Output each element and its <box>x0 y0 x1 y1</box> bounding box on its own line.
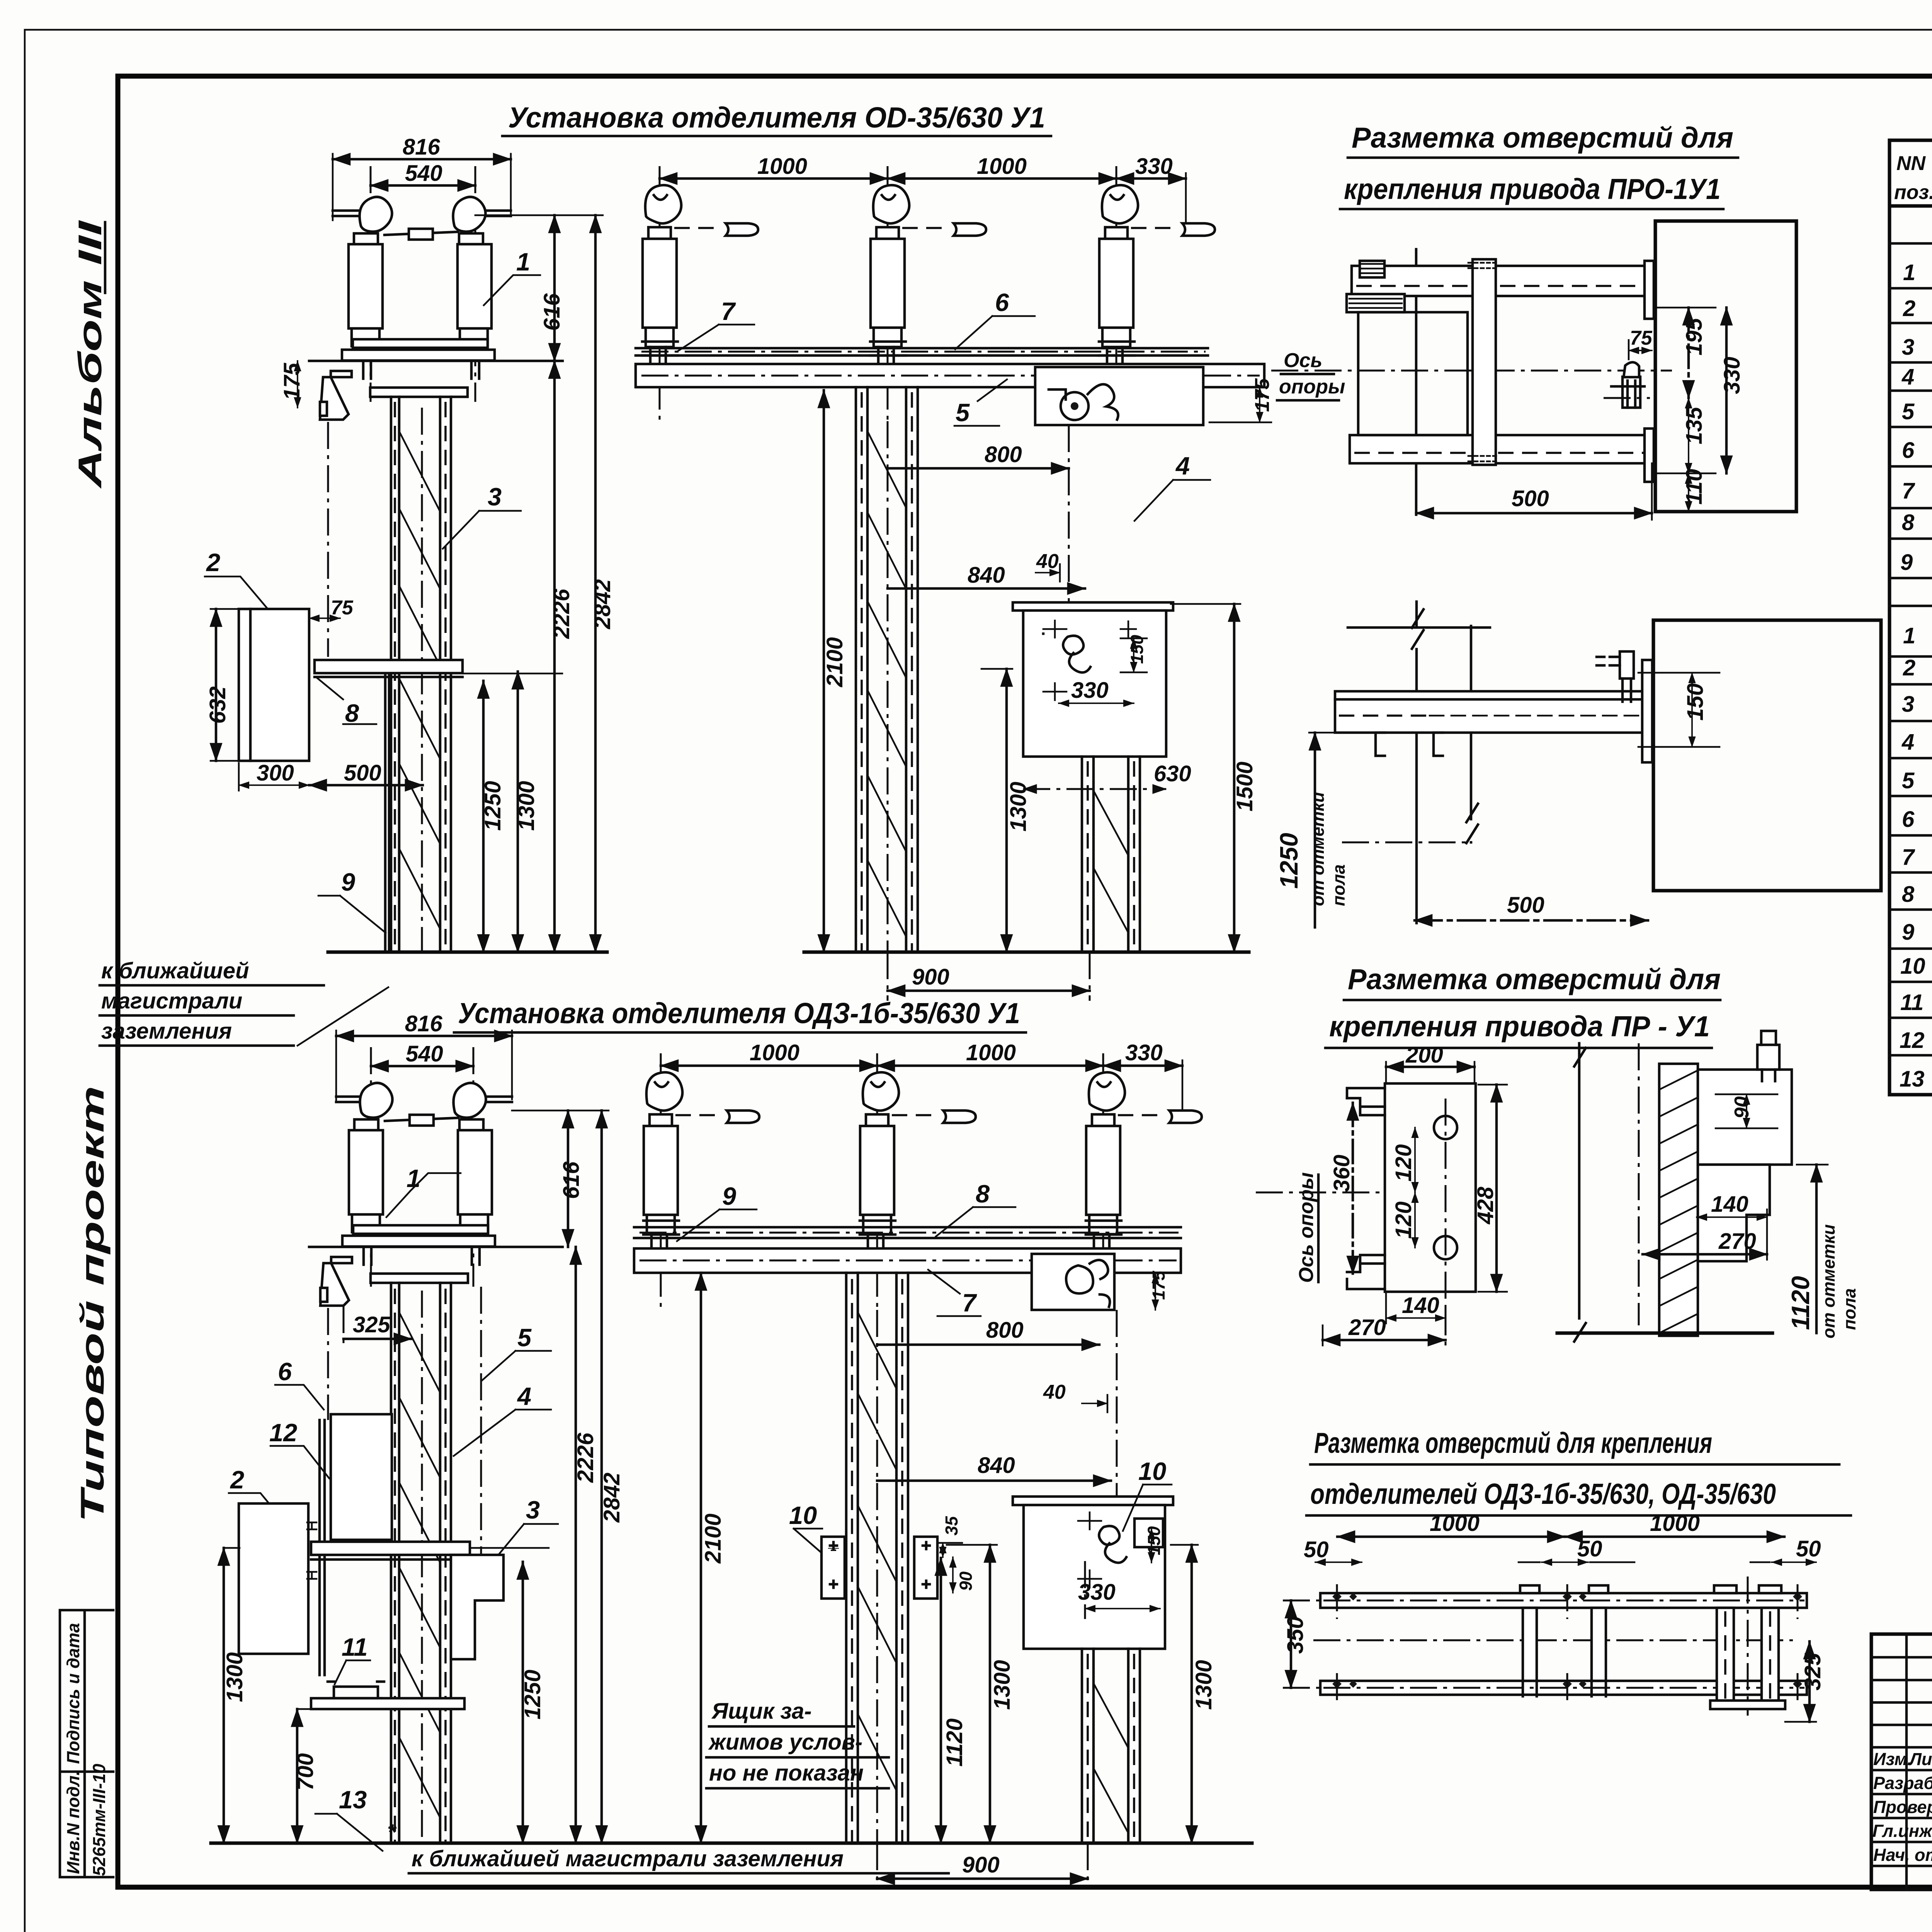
left margin text: Типовой проект <box>74 1086 111 1522</box>
spec s2 row 9 <box>1902 912 1932 952</box>
D2R insulator C <box>1086 1072 1125 1250</box>
svg-text:195: 195 <box>1682 318 1707 355</box>
D2L rod dash-dot (right, тяга 5) <box>480 1287 482 1569</box>
spec s2 row 1 <box>1903 621 1932 648</box>
D2L drive rod dash-dot (left) <box>327 1308 329 1420</box>
svg-text:360: 360 <box>1329 1155 1354 1192</box>
label 13 (D2) <box>315 1786 383 1851</box>
svg-text:5: 5 <box>517 1323 532 1352</box>
svg-text:140: 140 <box>1402 1293 1439 1318</box>
svg-text:616: 616 <box>539 293 565 331</box>
dimension 50 (M3 left) <box>1304 1537 1362 1562</box>
D1R contact blade A (open, dashed) <box>674 223 758 236</box>
label 2 (D2) <box>229 1466 282 1519</box>
svg-text:Нач. отд.: Нач. отд. <box>1873 1845 1932 1865</box>
D2L insulator A centerline <box>370 1047 372 1287</box>
svg-text:11: 11 <box>342 1633 367 1661</box>
svg-text:Разметка отверстий для: Разметка отверстий для <box>1352 121 1733 154</box>
D1 ground line (left view) <box>328 951 607 954</box>
M1 wall flange lower <box>1645 429 1654 482</box>
dimension 2100 (D2R) <box>701 1273 726 1843</box>
D1 ground line (right view) <box>804 951 1249 954</box>
svg-text:330: 330 <box>1071 678 1109 703</box>
svg-text:50: 50 <box>1304 1537 1329 1562</box>
svg-text:9: 9 <box>1902 920 1914 945</box>
D1R cabinet (ящик) <box>1023 611 1166 757</box>
spec s1 row 6 <box>1902 434 1932 467</box>
D1R main crossarm beam <box>636 364 1264 387</box>
dimension 428 (M2) <box>1473 1085 1507 1292</box>
D2R cabinet legs <box>1082 1649 1140 1845</box>
svg-text:8: 8 <box>1902 510 1915 535</box>
D2R cabinet top plate <box>1013 1497 1173 1505</box>
label 10 (D2R cabinet) <box>1123 1457 1172 1547</box>
D2L top link bar <box>385 1115 458 1126</box>
svg-text:900: 900 <box>912 964 949 990</box>
dimension 500 (M1V2) <box>1415 893 1648 920</box>
dimension 40 (D1R) <box>1036 550 1060 582</box>
svg-text:1250: 1250 <box>1275 833 1303 889</box>
D2R cabinet <box>1024 1505 1165 1649</box>
dimension 1000 (M3 left) <box>1337 1511 1565 1537</box>
svg-text:175: 175 <box>1149 1270 1168 1300</box>
D2L insulator A <box>349 1083 393 1232</box>
M2R drive box step <box>1698 1165 1770 1261</box>
label 3 (D1) <box>443 483 521 549</box>
D2R cabinet hook detail <box>1078 1512 1126 1587</box>
dimension 270 (M2R) <box>1643 1209 1767 1260</box>
svg-text:840: 840 <box>978 1453 1015 1478</box>
dimension 900 (D1R) <box>888 952 1090 1001</box>
dimension 330 (M1) <box>1719 308 1745 473</box>
svg-text:пола: пола <box>1840 1288 1859 1330</box>
dimension 50 (M3 right) <box>1750 1536 1821 1562</box>
D1L pole lattice hatch <box>400 433 439 927</box>
note: Ящик зажимов условно не показан <box>706 1699 889 1788</box>
svg-text:5265тм-III-10: 5265тм-III-10 <box>89 1764 109 1876</box>
note: к ближайшей магистрали заземления (D1) <box>100 958 388 1046</box>
M1 wall panel <box>1655 221 1796 512</box>
D1L pole centerline <box>421 408 423 952</box>
svg-text:2: 2 <box>1903 296 1915 321</box>
D2L small bracket 11 <box>328 1682 384 1698</box>
left margin text: Альбом III <box>72 219 109 489</box>
M2R pin on top <box>1757 1031 1779 1081</box>
D1L insulator A (cap + body) <box>349 197 392 346</box>
D2L insulator B centerline <box>473 1047 474 1287</box>
dimension 40 (D2R) <box>1043 1381 1107 1412</box>
svg-text:поз.: поз. <box>1894 181 1932 204</box>
svg-text:800: 800 <box>986 1318 1024 1343</box>
note: к ближайшей магистрали заземления (D2) <box>387 1820 949 1873</box>
M1 lower beam <box>1350 435 1648 463</box>
M1V2 top tick line <box>1348 626 1490 629</box>
dimension 816 <box>333 134 511 220</box>
D2R pole centerline <box>876 1310 878 1843</box>
dimension 2100 (D1R) <box>822 390 847 952</box>
svg-text:90: 90 <box>956 1571 976 1591</box>
svg-text:1: 1 <box>1903 260 1915 285</box>
M1V2 pole verticals with break <box>1412 602 1478 923</box>
spec s2 row 4 <box>1901 728 1932 755</box>
dimension 140 (M2) <box>1386 1293 1446 1323</box>
dimension 110 (M1) <box>1658 469 1716 512</box>
svg-text:крепления привода ПР - У1: крепления привода ПР - У1 <box>1329 1010 1710 1043</box>
dimension 540 (D2L) <box>371 1041 473 1066</box>
dimension 2226 (D2L) <box>573 1247 598 1843</box>
label 10 (D2R pole boxes) <box>789 1501 829 1560</box>
spec s2 row 7 <box>1902 838 1932 872</box>
M1 vertical centerline <box>1415 249 1418 515</box>
D2L insulator B <box>454 1083 492 1232</box>
dimension 1300 (D1L) <box>514 672 539 952</box>
D1L mount level line <box>309 360 563 362</box>
M1 pin detail <box>1604 362 1650 408</box>
D2L base plate upper <box>353 1225 488 1234</box>
label 2 (D1) <box>205 548 281 624</box>
svg-text:6: 6 <box>1902 807 1915 832</box>
svg-text:к ближайшей магистрали зазе: к ближайшей магистрали заземления <box>412 1846 844 1871</box>
svg-text:110: 110 <box>1682 469 1707 505</box>
D1L top link bar <box>384 229 458 240</box>
M1 wall flange upper <box>1645 261 1654 319</box>
svg-text:8: 8 <box>345 699 359 727</box>
D1L drive rod dash-dot <box>327 422 329 657</box>
M2 hole upper <box>1434 1116 1457 1139</box>
svg-text:2842: 2842 <box>599 1473 624 1523</box>
D2L mid crossbeam <box>311 1542 549 1560</box>
dimension 175 (D1R) <box>1209 378 1274 422</box>
dimension 1000 (D2R B-C) <box>877 1040 1103 1066</box>
svg-text:500: 500 <box>344 760 381 786</box>
label 4 (D1R) <box>1134 452 1210 521</box>
svg-text:1: 1 <box>1903 623 1915 648</box>
svg-text:2100: 2100 <box>822 637 847 687</box>
svg-text:NN: NN <box>1896 152 1926 175</box>
svg-text:от отметки: от отметки <box>1308 792 1328 906</box>
svg-text:отделителей ОДЗ-1б-35/630, О: отделителей ОДЗ-1б-35/630, ОД-35/630 <box>1310 1478 1776 1510</box>
dimension 330 (D1R cabinet) <box>1059 678 1134 703</box>
svg-text:9: 9 <box>722 1182 736 1210</box>
D1L pole right rail <box>440 397 451 952</box>
D1R phase flanges on beams <box>642 342 1134 355</box>
svg-text:1300: 1300 <box>990 1660 1015 1710</box>
D1L support bracket <box>320 371 352 420</box>
svg-text:1300: 1300 <box>1191 1660 1216 1710</box>
dimension 140 (M2R) <box>1697 1192 1767 1217</box>
svg-text:5: 5 <box>1902 768 1915 793</box>
dimension 325 (D2L) <box>344 1306 412 1349</box>
svg-text:8: 8 <box>976 1180 990 1208</box>
svg-text:заземления: заземления <box>101 1019 232 1044</box>
spec s2 row 12 <box>1900 1025 1932 1053</box>
D1R drive vertical rod <box>1068 425 1070 611</box>
svg-text:Типовой проект: Типовой проект <box>74 1086 111 1522</box>
D2R pole right rail <box>896 1273 908 1843</box>
spec s1 row 3 <box>1902 333 1932 360</box>
svg-text:840: 840 <box>968 563 1005 588</box>
D2R clamp box left <box>821 1537 845 1599</box>
svg-text:6: 6 <box>995 288 1009 316</box>
spec s1 row 1 <box>1903 258 1932 285</box>
D1R contact blade C (open, dashed) <box>1131 223 1215 236</box>
spec s1 row 4 <box>1901 361 1932 393</box>
svg-text:9: 9 <box>341 868 355 896</box>
M2 horizontal centerline <box>1256 1192 1383 1194</box>
dimension 1120 (D2R) <box>941 1558 967 1843</box>
svg-text:75: 75 <box>1630 327 1653 349</box>
svg-text:540: 540 <box>405 161 442 186</box>
svg-text:900: 900 <box>962 1852 1000 1878</box>
D2R pole lattice hatch <box>859 1314 896 1789</box>
label 4 (D2) <box>454 1382 551 1456</box>
svg-text:120: 120 <box>1391 1144 1416 1182</box>
svg-text:5: 5 <box>1902 399 1915 424</box>
svg-text:330: 330 <box>1719 357 1745 394</box>
title block grid <box>1871 1634 1932 1889</box>
svg-text:50: 50 <box>1796 1536 1821 1561</box>
M3 post 3 (wide pair) <box>1714 1577 1781 1716</box>
svg-text:опоры: опоры <box>1279 376 1345 398</box>
dimension 1000 (phase B-C) <box>888 154 1116 179</box>
D1R drive box ПРО-1У1 <box>1035 367 1203 425</box>
svg-text:Изм.: Изм. <box>1873 1749 1912 1769</box>
label 7 (D2R) <box>928 1270 981 1317</box>
svg-text:11: 11 <box>1900 990 1923 1015</box>
svg-text:4: 4 <box>1901 364 1914 389</box>
svg-text:10: 10 <box>1900 954 1925 979</box>
svg-text:12: 12 <box>1900 1028 1925 1053</box>
spec s2 row 10 <box>1900 948 1932 988</box>
svg-text:1000: 1000 <box>750 1040 799 1065</box>
label 6 (D2) <box>275 1357 324 1410</box>
svg-text:жимов услов-: жимов услов- <box>708 1730 862 1755</box>
svg-text:2226: 2226 <box>573 1432 598 1483</box>
D2L cabinet 2 <box>239 1503 308 1654</box>
drawing 1 title <box>502 101 1051 136</box>
svg-text:Разраб.: Разраб. <box>1873 1773 1932 1793</box>
spec s2 row 5 <box>1902 762 1932 795</box>
svg-text:от отметки: от отметки <box>1819 1224 1838 1338</box>
svg-text:4: 4 <box>1175 452 1190 480</box>
svg-text:7: 7 <box>962 1289 977 1317</box>
svg-text:10: 10 <box>789 1501 817 1529</box>
label 9 (D2R) <box>677 1182 757 1241</box>
M1V2 pin detail <box>1597 651 1634 702</box>
M1V2 wall flange <box>1642 660 1652 762</box>
dimension 616 and 2226 line (D1L) <box>539 215 574 952</box>
spec s1 row 8 <box>1902 507 1932 548</box>
D2R phase flanges <box>643 1221 1121 1235</box>
dimension 1300 (D2L) <box>222 1548 247 1843</box>
M2 left bracket <box>1347 1088 1385 1289</box>
svg-text:90: 90 <box>1731 1096 1753 1119</box>
M1 left clamp small rect 1 <box>1360 261 1384 277</box>
dimension 816 (D2L) <box>336 1011 512 1101</box>
M1V2 wall panel <box>1653 620 1881 891</box>
svg-text:Лист: Лист <box>1908 1749 1932 1769</box>
dimension 800 (D1R) <box>888 442 1069 468</box>
dimension 120 upper (M2) <box>1391 1128 1416 1192</box>
label 12 (D2) <box>269 1418 329 1478</box>
M1V2 bottom bracket marks <box>1376 733 1443 756</box>
D2R contact blade C <box>1118 1111 1202 1123</box>
svg-text:9: 9 <box>1900 550 1913 575</box>
dimension 1300 (D2R right) <box>1171 1545 1216 1843</box>
svg-text:500: 500 <box>1507 893 1544 918</box>
svg-text:175: 175 <box>279 362 304 400</box>
D1R cabinet hook detail <box>1043 621 1136 700</box>
spec s2 row 3 <box>1902 689 1932 717</box>
dimension 75 (D1L) <box>309 597 354 619</box>
dimension 1250 от отметки пола (M1V2) <box>1275 733 1349 927</box>
M2 hole lower <box>1434 1236 1457 1259</box>
M2R drive box upper <box>1698 1070 1792 1165</box>
label 3 (D2) <box>487 1496 558 1569</box>
D2L pole right rail <box>440 1283 451 1843</box>
dimension 1300 (D2R mid) <box>947 1545 1015 1843</box>
D1R pole centerline <box>887 421 889 952</box>
dimension 90 (M2R) <box>1716 1094 1777 1128</box>
svg-text:2: 2 <box>1903 655 1915 680</box>
spec s1 row 7 <box>1902 470 1932 511</box>
D2L mounting stubs <box>364 1247 480 1265</box>
dimension 270 (M2) <box>1323 1308 1446 1345</box>
svg-text:150: 150 <box>1683 683 1708 721</box>
svg-text:140: 140 <box>1711 1192 1748 1217</box>
D2L left contact arm <box>336 1097 375 1102</box>
dimension 700 (D2L) <box>293 1709 318 1843</box>
svg-text:3: 3 <box>1902 335 1914 360</box>
dimension 300 <box>239 760 309 791</box>
D1L base plate lower <box>342 350 495 361</box>
dimension 330 (D2R cabinet) <box>1078 1561 1160 1619</box>
D1L cabinet (привод ПРО-1У1) <box>239 609 309 761</box>
svg-text:6: 6 <box>278 1357 292 1386</box>
D1L beam extension line <box>463 673 562 675</box>
svg-text:150: 150 <box>1127 635 1147 664</box>
D2L lower platform <box>311 1698 464 1709</box>
dimension 35 (D2R) <box>939 1516 962 1557</box>
dimension 150 (M1V2) <box>1638 673 1719 747</box>
svg-text:175: 175 <box>1251 378 1274 412</box>
D2L pole centerline <box>421 1291 423 1843</box>
M3 upper rail <box>1320 1593 1807 1608</box>
svg-text:12: 12 <box>269 1418 297 1447</box>
svg-text:*: * <box>387 1820 397 1845</box>
dimension 632 <box>205 609 241 761</box>
dimension 1000 (D2R A-B) <box>661 1040 877 1066</box>
M2 plate <box>1385 1083 1476 1292</box>
dimension 540 <box>371 161 475 186</box>
svg-text:700: 700 <box>293 1753 318 1791</box>
dimension 1120 от отметки пола (M2R) <box>1786 1165 1859 1338</box>
svg-text:325: 325 <box>353 1312 391 1337</box>
svg-text:135: 135 <box>1682 406 1707 444</box>
D2R pole left rail <box>846 1273 858 1843</box>
M2R ground line <box>1557 1332 1772 1335</box>
M3 post 1 <box>1520 1585 1539 1696</box>
svg-text:632: 632 <box>205 686 230 724</box>
D1R pole right rail <box>906 387 918 952</box>
M1 title <box>1340 121 1738 209</box>
label 6 (D1R) <box>955 288 1035 349</box>
dimension 500 <box>309 760 423 786</box>
svg-text:1300: 1300 <box>222 1652 247 1702</box>
spec s2 row 6 <box>1902 800 1932 834</box>
spec s2 row 11 <box>1900 988 1932 1015</box>
svg-text:350: 350 <box>1283 1616 1308 1654</box>
svg-text:428: 428 <box>1473 1186 1498 1225</box>
D2R phase A centerline <box>660 1053 662 1310</box>
svg-text:200: 200 <box>1405 1043 1443 1068</box>
dimension 840 (D1R) <box>888 563 1085 588</box>
dimension 175 (D2R) <box>1149 1270 1168 1310</box>
dimension 2842 (D1L) <box>475 215 615 952</box>
label 9 (D1) <box>318 868 386 933</box>
dimension 50 (M3 mid) <box>1519 1536 1634 1562</box>
D2R main crossarm beam <box>634 1248 1181 1273</box>
D1R pole left rail <box>856 387 867 952</box>
svg-text:500: 500 <box>1512 486 1549 511</box>
title block: left column labels <box>1873 1749 1932 1769</box>
M2R wall with break <box>1574 1043 1639 1342</box>
svg-text:2842: 2842 <box>590 579 615 629</box>
svg-text:1500: 1500 <box>1232 762 1257 811</box>
spec s1 row 2 <box>1903 295 1932 321</box>
dimension 1500 (D1R) <box>1171 604 1257 952</box>
D2R insulator B <box>860 1072 899 1250</box>
svg-text:50: 50 <box>1577 1536 1602 1561</box>
svg-text:Провер.: Провер. <box>1873 1797 1932 1817</box>
svg-text:2: 2 <box>206 548 220 577</box>
M3 base plate <box>1710 1701 1785 1709</box>
svg-text:Инв.N подл.: Инв.N подл. <box>63 1770 83 1874</box>
M3 title <box>1306 1427 1851 1515</box>
svg-text:но не показан: но не показан <box>709 1760 864 1786</box>
svg-text:40: 40 <box>1043 1381 1066 1403</box>
dimension 616 (D2L) <box>559 1111 584 1247</box>
dimension 500 (M1 view1) <box>1416 463 1652 520</box>
svg-text:1000: 1000 <box>1650 1511 1700 1536</box>
D2L pole top plate <box>371 1274 468 1283</box>
svg-text:Установка отделителя OD-35/6: Установка отделителя OD-35/630 У1 <box>508 101 1045 134</box>
svg-text:8: 8 <box>1902 882 1915 907</box>
svg-text:13: 13 <box>1900 1066 1925 1092</box>
dimension 1250 (D2L) <box>520 1562 545 1843</box>
svg-text:1300: 1300 <box>1006 782 1031 832</box>
D2R phase B centerline <box>876 1053 878 1310</box>
svg-text:3: 3 <box>488 483 502 511</box>
dimension 330 (D2R) <box>1103 1040 1182 1121</box>
dimension 350 (M3) <box>1283 1600 1321 1688</box>
dimension 840 (D2R) <box>877 1453 1111 1481</box>
svg-text:540: 540 <box>406 1041 443 1066</box>
dimension 1000 (M3 right) <box>1565 1511 1784 1537</box>
D2R clamp box right <box>914 1537 937 1599</box>
svg-text:7: 7 <box>1902 478 1915 503</box>
dimension 175 (D1L) <box>279 361 304 408</box>
D1L mounting stubs <box>363 361 479 379</box>
spec table grid <box>1889 140 1932 1095</box>
spec s2 row 8 <box>1902 875 1932 909</box>
D1L insulator phase A centerline <box>370 166 372 402</box>
svg-text:крепления привода ПРО-1У1: крепления привода ПРО-1У1 <box>1344 173 1721 205</box>
svg-text:10: 10 <box>1138 1457 1166 1485</box>
D2R phase C centerline <box>1102 1053 1104 1310</box>
dimension 150 (D1R cabinet) <box>1121 635 1147 672</box>
dimension 630 (D1R cabinet) <box>1023 761 1191 789</box>
